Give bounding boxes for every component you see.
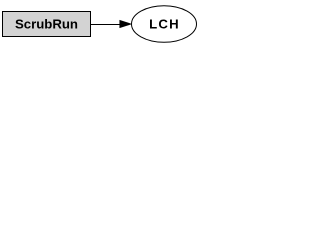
svg-text:ScrubRun: ScrubRun <box>15 16 78 31</box>
arrowhead <box>120 21 131 28</box>
svg-text:LCH: LCH <box>149 16 180 31</box>
node ScrubRun (box) <box>3 11 91 36</box>
wire edge ScrubRun->LCH <box>91 23 121 25</box>
node LCH (ellipse) <box>132 6 197 43</box>
